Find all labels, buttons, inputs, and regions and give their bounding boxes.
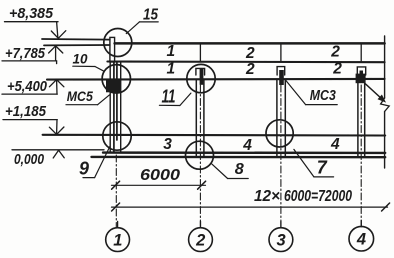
svg-text:4: 4 — [330, 136, 340, 153]
svg-text:12×: 12× — [254, 188, 280, 205]
svg-text:2: 2 — [330, 43, 340, 60]
svg-text:10: 10 — [73, 51, 88, 66]
svg-text:0,000: 0,000 — [14, 151, 45, 168]
svg-text:1: 1 — [113, 232, 122, 250]
svg-text:2: 2 — [195, 232, 205, 250]
svg-text:11: 11 — [162, 87, 176, 107]
svg-text:3: 3 — [277, 232, 286, 250]
svg-text:1: 1 — [167, 43, 176, 60]
svg-text:4: 4 — [242, 137, 252, 154]
svg-text:4: 4 — [356, 231, 366, 249]
svg-text:2: 2 — [245, 61, 255, 78]
svg-text:+8,385: +8,385 — [9, 5, 54, 22]
svg-text:1: 1 — [167, 60, 176, 77]
svg-text:MC5: MC5 — [67, 89, 93, 104]
svg-text:2: 2 — [245, 45, 255, 62]
svg-text:8: 8 — [235, 161, 244, 178]
svg-text:2: 2 — [332, 60, 342, 77]
svg-text:+7,785: +7,785 — [5, 45, 46, 62]
svg-text:6000: 6000 — [140, 167, 180, 184]
svg-text:MC3: MC3 — [310, 88, 336, 104]
svg-text:3: 3 — [163, 136, 172, 153]
svg-text:+1,185: +1,185 — [5, 103, 47, 120]
svg-text:+5,400: +5,400 — [7, 78, 48, 95]
svg-text:6000=72000: 6000=72000 — [284, 188, 352, 205]
svg-text:7: 7 — [317, 158, 328, 178]
svg-text:9: 9 — [79, 158, 89, 178]
svg-text:15: 15 — [143, 6, 159, 23]
